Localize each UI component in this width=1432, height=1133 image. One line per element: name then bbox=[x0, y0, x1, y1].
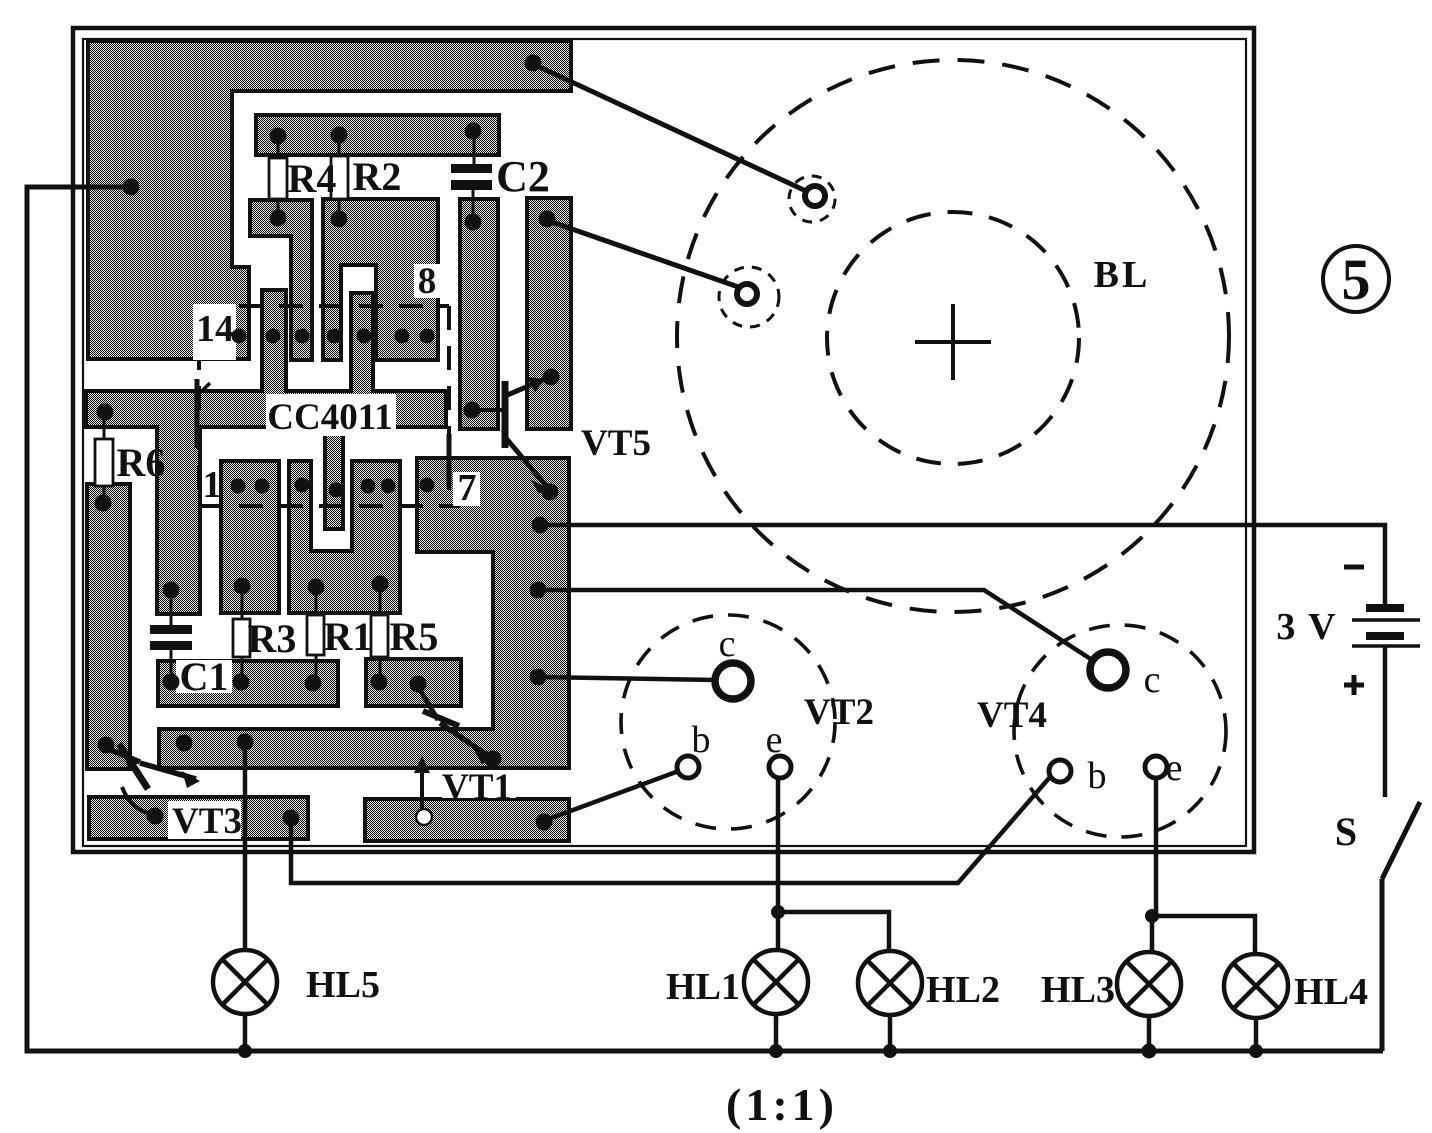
svg-text:HL5: HL5 bbox=[306, 964, 380, 1006]
svg-text:HL1: HL1 bbox=[666, 966, 740, 1008]
svg-text:HL3: HL3 bbox=[1041, 969, 1115, 1011]
svg-text:c: c bbox=[1144, 659, 1161, 701]
svg-text:R3: R3 bbox=[248, 616, 297, 661]
svg-text:VT2: VT2 bbox=[804, 692, 874, 733]
svg-text:8: 8 bbox=[418, 261, 437, 302]
svg-text:CC4011: CC4011 bbox=[267, 397, 392, 438]
svg-text:C1: C1 bbox=[180, 654, 229, 699]
svg-text:b: b bbox=[1088, 755, 1107, 797]
svg-text:5: 5 bbox=[1342, 247, 1371, 312]
svg-text:e: e bbox=[766, 719, 783, 761]
svg-text:3 V: 3 V bbox=[1276, 606, 1337, 648]
svg-text:R4: R4 bbox=[288, 156, 337, 201]
svg-text:HL4: HL4 bbox=[1294, 971, 1368, 1013]
svg-text:R5: R5 bbox=[390, 614, 439, 659]
svg-text:c: c bbox=[719, 623, 736, 665]
svg-text:7: 7 bbox=[458, 467, 477, 509]
svg-text:(1:1): (1:1) bbox=[726, 1079, 838, 1130]
svg-text:VT1: VT1 bbox=[442, 767, 512, 808]
svg-text:14: 14 bbox=[196, 308, 234, 350]
svg-text:R1: R1 bbox=[324, 614, 373, 659]
svg-text:b: b bbox=[692, 719, 711, 761]
svg-text:HL2: HL2 bbox=[926, 969, 1000, 1011]
svg-text:1: 1 bbox=[203, 464, 222, 506]
svg-text:VT3: VT3 bbox=[172, 801, 242, 842]
svg-text:VT4: VT4 bbox=[977, 695, 1047, 736]
svg-text:R2: R2 bbox=[353, 154, 402, 199]
svg-text:e: e bbox=[1166, 747, 1183, 789]
svg-text:C2: C2 bbox=[496, 152, 550, 201]
svg-text:BL: BL bbox=[1094, 254, 1151, 296]
svg-text:R6: R6 bbox=[117, 440, 166, 485]
svg-text:VT5: VT5 bbox=[581, 423, 651, 464]
svg-text:S: S bbox=[1335, 809, 1357, 854]
